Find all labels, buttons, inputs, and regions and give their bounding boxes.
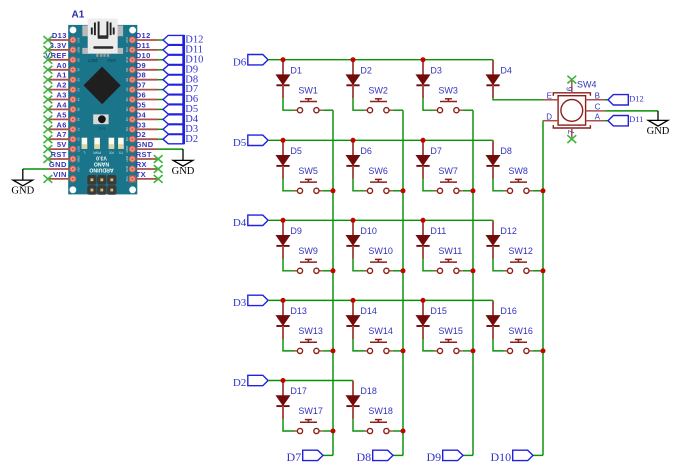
nano pin 3.3V (left) (49, 41, 71, 50)
svg-text:3V3: 3V3 (77, 37, 81, 43)
terminal tag D5 (row 2) (233, 135, 268, 149)
push button SW13 (295, 326, 323, 354)
diode D6 (346, 140, 372, 179)
svg-text:D12: D12 (136, 31, 151, 40)
wire D2 cathode to SW2 (353, 98, 365, 110)
wire column 4 vertical (533, 121, 543, 456)
svg-text:GND: GND (125, 146, 129, 154)
svg-text:RX0: RX0 (125, 166, 129, 172)
wire SW2 to column 2 (393, 109, 403, 111)
svg-text:D4: D4 (125, 117, 129, 121)
wire SW6 to column 2 (393, 190, 403, 192)
wire nano D3 to bus tap (158, 128, 163, 130)
svg-text:A: A (595, 112, 601, 121)
push button SW7 (435, 166, 463, 194)
svg-text:E: E (547, 91, 552, 100)
svg-text:SW18: SW18 (368, 406, 393, 416)
wire row 2 (D5) (268, 139, 493, 141)
encoder pin B (586, 91, 605, 100)
svg-text:D5: D5 (136, 100, 146, 109)
junction (421, 298, 426, 303)
push button SW5 (295, 166, 323, 194)
wire column 3 vertical (463, 110, 473, 455)
svg-text:A1: A1 (56, 71, 66, 80)
push button SW12 (505, 246, 533, 274)
junction (471, 348, 476, 353)
diode D18 (346, 381, 377, 420)
junction (421, 138, 426, 143)
junction (541, 348, 546, 353)
push button SW17 (295, 406, 323, 434)
wire nano D12 to bus tap (158, 39, 163, 41)
rotary encoder SW4 body (553, 93, 590, 128)
diode D1 (276, 60, 302, 99)
nano pin D5 (right) (136, 100, 158, 109)
nano pin D4 (right) (136, 110, 158, 119)
bus tap terminal D11 (163, 45, 203, 56)
bus tap terminal D12 (163, 35, 203, 46)
wire nano D4 to bus tap (158, 118, 163, 120)
svg-text:REF: REF (77, 47, 81, 53)
terminal tag D11 (encoder A) (608, 114, 643, 126)
no-connect X on pin A4 (44, 106, 53, 114)
svg-text:7: 7 (567, 129, 576, 134)
junction (541, 268, 546, 273)
svg-text:SW8: SW8 (508, 166, 528, 176)
svg-text:D5: D5 (233, 137, 247, 149)
svg-text:2007: 2007 (87, 58, 98, 63)
svg-text:5V: 5V (57, 140, 67, 149)
svg-text:RST: RST (77, 146, 81, 152)
svg-text:A5: A5 (77, 108, 81, 112)
nano pin 5V (left) (49, 140, 71, 149)
no-connect X on pin A1 (44, 76, 53, 84)
svg-text:D5: D5 (290, 146, 302, 156)
bus tap terminal D4 (163, 114, 199, 125)
terminal tag D6 (row 1) (233, 55, 268, 69)
svg-text:USA: USA (106, 58, 116, 63)
svg-text:A4: A4 (77, 98, 81, 102)
svg-text:A0: A0 (77, 58, 81, 62)
svg-text:RST: RST (136, 150, 152, 159)
nano pin A1 (left) (49, 71, 71, 80)
wire SW8 to column 4 (533, 190, 543, 192)
svg-text:SW3: SW3 (438, 85, 458, 95)
wire D4 cathode to encoder E pin (493, 98, 543, 100)
diode D13 (276, 300, 307, 339)
svg-text:D10: D10 (136, 51, 151, 60)
no-connect X on pin VIN (44, 175, 53, 183)
svg-text:D18: D18 (360, 386, 377, 396)
junction (331, 429, 336, 434)
terminal tag D12 (encoder B) (608, 93, 644, 105)
svg-text:SW12: SW12 (508, 246, 533, 256)
svg-text:D9: D9 (136, 61, 146, 70)
Arduino Nano module A1 (68, 19, 137, 195)
svg-text:D7: D7 (287, 450, 302, 464)
no-connect X on pin A6 (44, 125, 53, 133)
wire D3 cathode to SW3 (423, 98, 435, 110)
wire D12 cathode to SW12 (493, 259, 505, 271)
push button SW15 (435, 326, 463, 354)
push button SW2 (365, 85, 393, 112)
svg-text:D11: D11 (629, 114, 643, 124)
svg-text:TX1: TX1 (125, 176, 129, 182)
svg-text:RST: RST (125, 156, 129, 162)
no-connect X on pin VREF (44, 56, 53, 64)
wire row 4 (D3) (268, 299, 493, 301)
diode D4 (486, 60, 512, 99)
wire D16 cathode to SW16 (493, 339, 505, 351)
bus tap terminal D9 (163, 64, 198, 75)
nano pin A4 (left) (49, 100, 71, 109)
no-connect X on pin A0 (44, 66, 53, 74)
push button SW18 (365, 406, 393, 434)
svg-text:A5: A5 (56, 110, 66, 119)
wire SW17 to column 1 (323, 430, 333, 432)
nano pin D8 (right) (136, 71, 158, 80)
wire nano D9 to bus tap (158, 69, 163, 71)
svg-text:D8: D8 (357, 450, 372, 464)
wire encoder B to tag D12 (605, 99, 609, 101)
svg-text:SW11: SW11 (438, 246, 462, 256)
terminal tag D10 (column 4) (491, 450, 533, 464)
wire SW1 to column 1 (323, 109, 333, 111)
encoder pin D (543, 112, 558, 121)
svg-text:VIN: VIN (53, 170, 67, 179)
svg-text:A6: A6 (77, 118, 81, 122)
wire D17 cathode to SW17 (283, 419, 295, 431)
svg-text:D4: D4 (136, 110, 147, 119)
diode D8 (486, 140, 512, 179)
terminal tag D2 (row 5) (233, 375, 268, 389)
svg-text:D13: D13 (290, 306, 307, 316)
push button SW11 (435, 246, 463, 274)
bus tap terminal D5 (163, 104, 198, 115)
junction (351, 298, 356, 303)
svg-text:GND: GND (11, 186, 34, 197)
nano pin GND (right) (136, 140, 158, 149)
diode D10 (346, 220, 377, 259)
svg-text:D10: D10 (491, 450, 512, 464)
diode D11 (416, 220, 446, 259)
wire D1 cathode to SW1 (283, 98, 295, 110)
diode D3 (416, 60, 442, 99)
svg-text:L: L (83, 150, 85, 154)
ground symbol (right of nano) (172, 160, 195, 177)
wire D5 cathode to SW5 (283, 179, 295, 191)
svg-text:D5: D5 (125, 107, 129, 111)
wire SW13 to column 1 (323, 350, 333, 352)
svg-text:C: C (595, 103, 601, 112)
wire row 5 (D2) (268, 380, 353, 382)
push button SW10 (365, 246, 393, 274)
wire SW18 to column 2 (393, 430, 403, 432)
svg-text:D1: D1 (290, 65, 302, 75)
svg-text:GND: GND (647, 126, 670, 137)
svg-text:A2: A2 (56, 81, 66, 90)
nano pin VREF (left) (45, 51, 70, 60)
terminal tag D9 (column 3) (427, 450, 463, 464)
svg-text:RST: RST (97, 126, 105, 130)
wire D10 cathode to SW10 (353, 259, 365, 271)
svg-text:D16: D16 (500, 306, 517, 316)
wire SW10 to column 2 (393, 270, 403, 272)
wire SW9 to column 1 (323, 270, 333, 272)
svg-text:GND: GND (172, 166, 195, 177)
nano pin TX (right) (136, 170, 158, 179)
diode D9 (276, 220, 302, 259)
svg-text:A2: A2 (77, 78, 81, 82)
junction (471, 268, 476, 273)
diode D7 (416, 140, 442, 179)
push button SW14 (365, 326, 393, 354)
nano pin A7 (left) (49, 130, 71, 139)
no-connect X on pin RST (44, 155, 53, 163)
junction (281, 57, 286, 62)
nano pin VIN (left) (49, 170, 71, 179)
nano pin D10 (right) (136, 51, 158, 60)
push button SW9 (295, 246, 323, 274)
no-connect X on pin A3 (44, 96, 53, 104)
terminal tag D4 (row 3) (233, 215, 268, 229)
svg-text:SW4: SW4 (577, 80, 597, 90)
no-connect X on pin RST (154, 155, 163, 163)
wire D11 cathode to SW11 (423, 259, 435, 271)
svg-text:GND: GND (49, 160, 67, 169)
junction (281, 138, 286, 143)
svg-text:SW17: SW17 (298, 406, 323, 416)
svg-text:D6: D6 (360, 146, 372, 156)
bus tap terminal D7 (163, 84, 198, 95)
junction (281, 218, 286, 223)
push button SW16 (505, 326, 533, 354)
svg-text:D7: D7 (136, 81, 146, 90)
svg-text:SW14: SW14 (368, 326, 393, 336)
wire SW16 to column 4 (533, 350, 543, 352)
svg-text:A4: A4 (56, 100, 67, 109)
svg-text:D6: D6 (125, 98, 129, 102)
svg-text:VIN: VIN (77, 166, 81, 171)
diode D15 (416, 300, 447, 339)
svg-text:D6: D6 (233, 56, 247, 68)
push button SW3 (435, 85, 463, 112)
nano pin RX (right) (136, 160, 158, 169)
svg-text:A6: A6 (56, 120, 66, 129)
encoder SW4 label (577, 80, 597, 90)
svg-text:D2: D2 (125, 137, 129, 141)
svg-text:SW2: SW2 (368, 85, 388, 95)
nano pin D2 (right) (136, 130, 158, 139)
svg-text:GND: GND (136, 140, 154, 149)
diode D16 (486, 300, 517, 339)
bus vertical line (183, 35, 185, 144)
nano pin D7 (right) (136, 81, 158, 90)
bus tap terminal D10 (163, 54, 203, 65)
svg-text:TX: TX (118, 150, 123, 154)
wire nano GND (left) to ground (23, 169, 49, 180)
push button SW8 (505, 166, 533, 194)
svg-text:D8: D8 (125, 78, 129, 82)
svg-text:SW10: SW10 (368, 246, 393, 256)
svg-text:A1: A1 (72, 10, 85, 21)
svg-text:SW5: SW5 (298, 166, 318, 176)
svg-text:B: B (595, 91, 600, 100)
svg-text:D6: D6 (136, 91, 146, 100)
svg-text:A3: A3 (56, 91, 66, 100)
svg-text:A0: A0 (56, 61, 66, 70)
bus tap terminal D8 (163, 74, 198, 85)
svg-text:D: D (546, 112, 552, 121)
svg-text:SW16: SW16 (508, 326, 533, 336)
svg-text:SW13: SW13 (298, 326, 323, 336)
svg-text:D7: D7 (125, 88, 129, 92)
svg-text:D3: D3 (233, 297, 247, 309)
nano pin A6 (left) (49, 120, 71, 129)
svg-text:RX: RX (136, 160, 147, 169)
junction (401, 348, 406, 353)
wire nano D7 to bus tap (158, 89, 163, 91)
svg-text:D9: D9 (290, 226, 302, 236)
wire encoder A to tag D11 (605, 120, 609, 122)
junction (331, 188, 336, 193)
junction (281, 298, 286, 303)
diode D2 (346, 60, 372, 99)
junction (281, 378, 286, 383)
bus tap terminal D6 (163, 94, 198, 105)
junction (331, 348, 336, 353)
wire row 1 (D6) (268, 59, 493, 61)
svg-text:D10: D10 (360, 226, 377, 236)
diode D17 (276, 381, 307, 420)
svg-text:D12: D12 (125, 37, 129, 43)
wire column 1 vertical (323, 110, 333, 455)
nano pin D11 (right) (136, 41, 158, 50)
svg-text:D2: D2 (185, 134, 198, 145)
junction (541, 188, 546, 193)
nano pin D12 (right) (136, 31, 158, 40)
junction (351, 57, 356, 62)
svg-text:D3: D3 (430, 65, 442, 75)
svg-text:TX: TX (136, 170, 146, 179)
no-connect X on pin D13 (44, 36, 53, 44)
nano pin D13 (left) (49, 31, 71, 40)
wire nano D8 to bus tap (158, 79, 163, 81)
diode D5 (276, 140, 302, 179)
bus tap terminal D3 (163, 124, 198, 135)
wire nano D10 to bus tap (158, 59, 163, 61)
wire nano GND (right) to ground (158, 149, 183, 160)
svg-text:D14: D14 (360, 306, 377, 316)
svg-text:D15: D15 (430, 306, 447, 316)
wire SW12 to column 4 (533, 270, 543, 272)
svg-text:D17: D17 (290, 386, 307, 396)
wire D8 cathode to SW8 (493, 179, 505, 191)
junction (401, 268, 406, 273)
no-connect X on pin A5 (44, 116, 53, 124)
svg-text:D12: D12 (500, 226, 517, 236)
wire SW3 to column 3 (463, 109, 473, 111)
svg-text:6: 6 (566, 86, 575, 91)
push button SW1 (295, 85, 323, 112)
svg-text:D2: D2 (136, 130, 146, 139)
wire D9 cathode to SW9 (283, 259, 295, 271)
encoder pin E (543, 91, 559, 100)
encoder pin A (586, 112, 605, 121)
junction (351, 138, 356, 143)
no-connect X on pin TX (154, 175, 163, 183)
nano pin A2 (left) (49, 81, 71, 90)
svg-text:SW9: SW9 (298, 246, 318, 256)
wire row 3 (D4) (268, 219, 493, 221)
nano pin A5 (left) (49, 110, 71, 119)
wire D18 cathode to SW18 (353, 419, 365, 431)
wire SW14 to column 2 (393, 350, 403, 352)
junction (331, 268, 336, 273)
wire nano D11 to bus tap (158, 49, 163, 51)
nano pin D6 (right) (136, 91, 158, 100)
svg-text:D13: D13 (52, 31, 67, 40)
svg-text:3.3V: 3.3V (50, 41, 67, 50)
wire nano D6 to bus tap (158, 99, 163, 101)
wire nano D2 to bus tap (158, 138, 163, 140)
svg-text:D4: D4 (500, 65, 512, 75)
svg-text:D11: D11 (136, 41, 151, 50)
svg-text:SW1: SW1 (298, 85, 318, 95)
svg-text:D11: D11 (430, 226, 446, 236)
wire SW11 to column 3 (463, 270, 473, 272)
reference label A1 (72, 10, 85, 21)
ground symbol (left of nano) (11, 180, 34, 197)
svg-text:D3: D3 (136, 120, 146, 129)
nano pin GND (left) (49, 160, 71, 169)
svg-text:5V: 5V (77, 137, 81, 141)
svg-text:A3: A3 (77, 88, 81, 92)
svg-text:D3: D3 (125, 127, 129, 131)
svg-text:D7: D7 (430, 146, 442, 156)
no-connect X on pin RX (154, 165, 163, 173)
wire encoder C to ground (606, 111, 659, 121)
svg-text:D8: D8 (500, 146, 512, 156)
svg-text:D11: D11 (125, 47, 129, 53)
junction (401, 429, 406, 434)
diode D12 (486, 220, 517, 259)
wire SW5 to column 1 (323, 190, 333, 192)
svg-text:D10: D10 (125, 57, 129, 63)
svg-text:RX: RX (108, 150, 113, 154)
terminal tag D7 (column 1) (287, 450, 323, 464)
nano pin A0 (left) (49, 61, 71, 70)
nano pin D3 (right) (136, 120, 158, 129)
nano pin D9 (right) (136, 61, 158, 70)
no-connect X on pin A2 (44, 86, 53, 94)
svg-text:D2: D2 (233, 377, 246, 389)
terminal tag D8 (column 2) (357, 450, 393, 464)
svg-text:GND: GND (77, 156, 81, 164)
no-connect X on pin 3.3V (44, 46, 53, 54)
svg-text:SW6: SW6 (368, 166, 388, 176)
diode D14 (346, 300, 377, 339)
bus tap terminal D2 (163, 134, 198, 145)
wire D15 cathode to SW15 (423, 339, 435, 351)
svg-text:A7: A7 (56, 130, 66, 139)
no-connect X on pin 5V (44, 145, 53, 153)
terminal tag D3 (row 4) (233, 295, 268, 309)
svg-text:D12: D12 (629, 93, 644, 103)
svg-text:SW7: SW7 (438, 166, 458, 176)
svg-text:A1: A1 (77, 68, 81, 72)
svg-text:SW15: SW15 (438, 326, 463, 336)
